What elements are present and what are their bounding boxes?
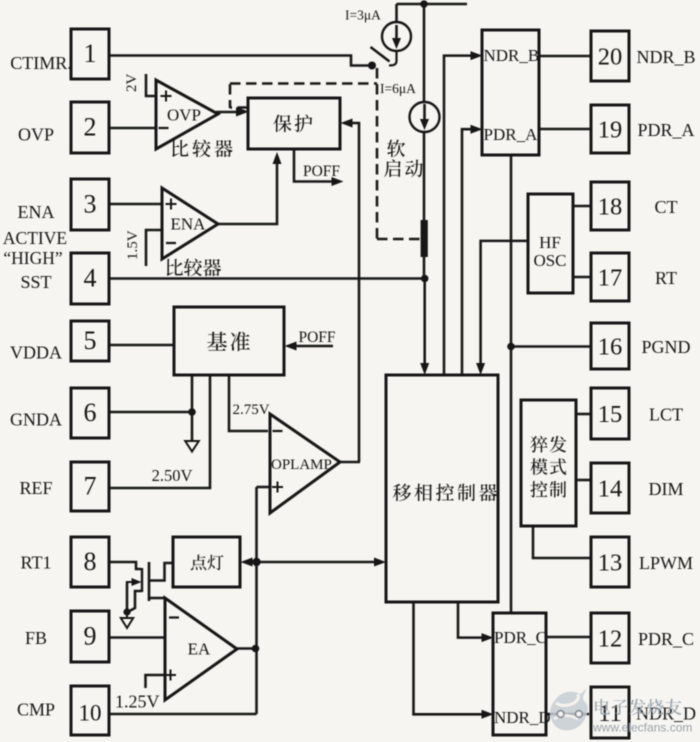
svg-text:RT: RT: [655, 268, 677, 288]
wire POFF out: [294, 149, 336, 182]
dashed soft-start bottom: [377, 238, 421, 241]
label comparator 1: [172, 140, 188, 157]
block burst mode: [521, 400, 576, 526]
pin 6 box: [71, 388, 109, 438]
wire GNDA: [109, 411, 192, 414]
node switch: [368, 62, 376, 70]
wire to pin20: [539, 55, 591, 58]
wire drive NDR_B: [444, 56, 474, 375]
svg-text:REF: REF: [19, 478, 52, 498]
pin 9 box: [71, 611, 109, 662]
node SST junction: [421, 275, 429, 283]
wire EA out: [235, 647, 257, 650]
dashed soft-start right: [376, 68, 379, 239]
wire pin2 to OVP minus: [109, 127, 156, 130]
node lamp junction: [252, 558, 260, 566]
svg-text:POFF: POFF: [298, 329, 335, 346]
wire ENA out: [216, 162, 277, 224]
svg-text:I=6μA: I=6μA: [380, 81, 416, 96]
resistor soft-start bar: [421, 220, 428, 257]
svg-text:1.5V: 1.5V: [125, 230, 141, 260]
pin 15 box: [591, 388, 629, 439]
svg-text:DIM: DIM: [649, 479, 684, 499]
pin 14 box: [591, 463, 629, 513]
svg-text:10: 10: [79, 701, 102, 726]
ground GNDA: [185, 441, 199, 452]
svg-text:OVP: OVP: [18, 124, 54, 144]
svg-text:16: 16: [598, 334, 623, 361]
wire to pin18: [573, 205, 591, 208]
wire soft-start mid: [423, 132, 426, 222]
pin 2 box: [71, 102, 109, 153]
svg-text:2.50V: 2.50V: [152, 466, 193, 485]
block lamp-on (dian-deng): [173, 537, 240, 587]
watermark logo: [550, 688, 588, 730]
block HF OSC: [528, 194, 573, 293]
svg-text:HF: HF: [539, 233, 561, 252]
wire soft-start low: [423, 257, 426, 279]
switch soft-start: [389, 52, 397, 66]
wire RT1 to gate: [109, 562, 141, 569]
wire SST to phase ctrl: [423, 279, 426, 368]
svg-text:4: 4: [84, 264, 97, 293]
svg-text:PGND: PGND: [641, 337, 690, 357]
wire VDDA to ref: [109, 344, 174, 347]
svg-text:13: 13: [598, 550, 623, 577]
svg-text:VDDA: VDDA: [10, 342, 62, 362]
wire drive PDR_C: [458, 602, 485, 638]
wire 2V ref stub: [146, 74, 156, 96]
transistor Q1 source: [149, 597, 165, 600]
pin 12 box: [591, 613, 629, 663]
block protect (bao-hu): [248, 98, 340, 149]
node PGND junction: [507, 343, 515, 351]
wire to pin19: [539, 128, 591, 131]
ground Q1: [126, 612, 128, 618]
svg-text:15: 15: [598, 401, 623, 428]
svg-text:PDR_C: PDR_C: [494, 628, 547, 647]
svg-text:17: 17: [598, 265, 623, 292]
block phase controller: [386, 375, 498, 602]
svg-text:2V: 2V: [124, 74, 140, 93]
op-amp OPLAMP: [270, 414, 340, 513]
wire to pin12: [546, 636, 591, 639]
node top rail junction: [420, 0, 428, 8]
pin 18 box: [591, 182, 629, 230]
wire OPLAMP plus stub: [257, 486, 271, 489]
block driver C/D: [493, 613, 546, 735]
svg-text:LPWM: LPWM: [639, 553, 693, 573]
pin 11 box: [591, 687, 629, 738]
pin 4 box: [71, 253, 109, 304]
wire CMP: [109, 713, 257, 716]
current source I=3uA: [382, 22, 411, 51]
transistor Q1 gate plate: [141, 568, 143, 592]
pin 5 box: [71, 321, 109, 361]
pin 3 box: [71, 179, 109, 230]
svg-text:2: 2: [84, 113, 97, 142]
svg-text:www.elecfans.com: www.elecfans.com: [592, 721, 692, 735]
svg-text:ENA: ENA: [171, 215, 207, 234]
transistor Q1 body arrow: [126, 582, 129, 611]
watermark text: [595, 699, 610, 715]
wire error bus: [255, 487, 258, 714]
pin 16 box: [591, 323, 629, 369]
pin 7 box: [71, 462, 109, 511]
svg-text:PDR_C: PDR_C: [638, 629, 694, 649]
svg-text:SST: SST: [20, 272, 51, 292]
transistor Q1 channel: [148, 562, 151, 601]
wire HF OSC to phase: [481, 241, 528, 367]
pin 13 box: [591, 537, 629, 587]
svg-text:ACTIVE: ACTIVE: [3, 228, 67, 248]
wire protect feedback: [351, 123, 359, 462]
arrow into protect left: [237, 107, 249, 116]
wire to pin16: [511, 345, 591, 348]
svg-text:CTIMR.: CTIMR.: [10, 53, 72, 73]
svg-text:CMP: CMP: [17, 699, 55, 719]
pin 17 box: [591, 253, 629, 301]
wire POFF into ref: [291, 345, 333, 348]
svg-text:18: 18: [598, 194, 623, 221]
svg-text:“HIGH”: “HIGH”: [3, 248, 62, 268]
label soft start: [387, 140, 405, 158]
dashed soft-start top: [230, 82, 377, 85]
wire 1.5V ref stub: [146, 230, 162, 266]
svg-text:NDR_D: NDR_D: [494, 708, 551, 727]
svg-text:19: 19: [598, 117, 623, 144]
svg-text:CT: CT: [654, 197, 677, 217]
svg-text:6: 6: [84, 398, 97, 427]
wire pin3 to ENA plus: [109, 203, 162, 206]
current source I=6uA: [410, 102, 440, 132]
wire top rail: [397, 3, 468, 6]
block reference (ji-zhun): [174, 307, 284, 375]
wire lamp line: [251, 561, 378, 564]
wire OVP out: [216, 111, 238, 114]
svg-text:POFF: POFF: [303, 163, 340, 180]
svg-text:9: 9: [84, 622, 97, 651]
op-amp ENA comparator: [162, 188, 218, 259]
svg-text:RT1: RT1: [21, 552, 52, 572]
op-amp EA: [165, 598, 237, 700]
svg-text:NDR_B: NDR_B: [636, 47, 695, 67]
svg-text:1: 1: [84, 39, 97, 68]
svg-text:7: 7: [84, 472, 97, 501]
svg-text:1.25V: 1.25V: [115, 692, 160, 712]
wire FB to EA: [109, 636, 165, 639]
wire 2.50V ref: [109, 375, 210, 488]
wire OPLAMP out: [338, 461, 360, 464]
wire 1.25V ref stub: [146, 675, 165, 688]
wire to pin14: [576, 479, 591, 482]
wire driver bus down: [510, 155, 513, 613]
svg-text:2.75V: 2.75V: [232, 402, 269, 418]
svg-text:OVP: OVP: [167, 106, 201, 125]
svg-text:3: 3: [84, 190, 97, 219]
svg-text:OPLAMP: OPLAMP: [271, 457, 332, 473]
wire 2.75V ref: [229, 375, 268, 431]
svg-text:14: 14: [598, 476, 623, 503]
pin 1 box: [71, 29, 109, 79]
svg-text:NDR_B: NDR_B: [484, 46, 540, 65]
wire to pin11: [546, 713, 589, 716]
block driver A/B: [482, 30, 539, 155]
svg-text:EA: EA: [188, 640, 211, 659]
svg-text:GNDA: GNDA: [10, 409, 62, 429]
wire drive NDR_D: [414, 602, 486, 714]
svg-text:FB: FB: [25, 628, 47, 648]
pin 10 box: [71, 686, 109, 735]
svg-text:12: 12: [598, 626, 623, 653]
svg-text:20: 20: [598, 44, 623, 71]
node Q1 body: [123, 608, 130, 615]
svg-text:PDR_A: PDR_A: [484, 125, 539, 144]
svg-text:I=3μA: I=3μA: [345, 8, 381, 23]
wire drive PDR_A: [462, 129, 474, 375]
wire CTIMR to switch: [109, 56, 369, 66]
wire SST pin4: [109, 277, 425, 280]
pin 20 box: [591, 31, 629, 81]
transistor Q1 drain: [149, 563, 173, 581]
wire to pin17: [573, 276, 591, 279]
pin 8 box: [71, 537, 109, 587]
svg-text:5: 5: [84, 326, 97, 355]
wire soft-start top: [423, 4, 426, 102]
label comparator 2: [167, 259, 183, 276]
svg-text:ENA: ENA: [18, 202, 55, 222]
svg-text:OSC: OSC: [533, 251, 566, 270]
svg-text:PDR_A: PDR_A: [637, 120, 694, 140]
dashed soft-start enable left: [230, 106, 248, 109]
wire ref gnd stub: [191, 375, 194, 440]
wire to pin15: [576, 413, 591, 416]
node GNDA junction: [188, 408, 196, 416]
pin 19 box: [591, 105, 629, 153]
svg-text:LCT: LCT: [649, 405, 683, 425]
node EA out: [252, 645, 260, 653]
wire to pin13: [533, 526, 591, 558]
op-amp OVP comparator: [156, 80, 218, 149]
transistor Q1 body lead: [129, 591, 143, 612]
svg-text:8: 8: [84, 547, 97, 576]
